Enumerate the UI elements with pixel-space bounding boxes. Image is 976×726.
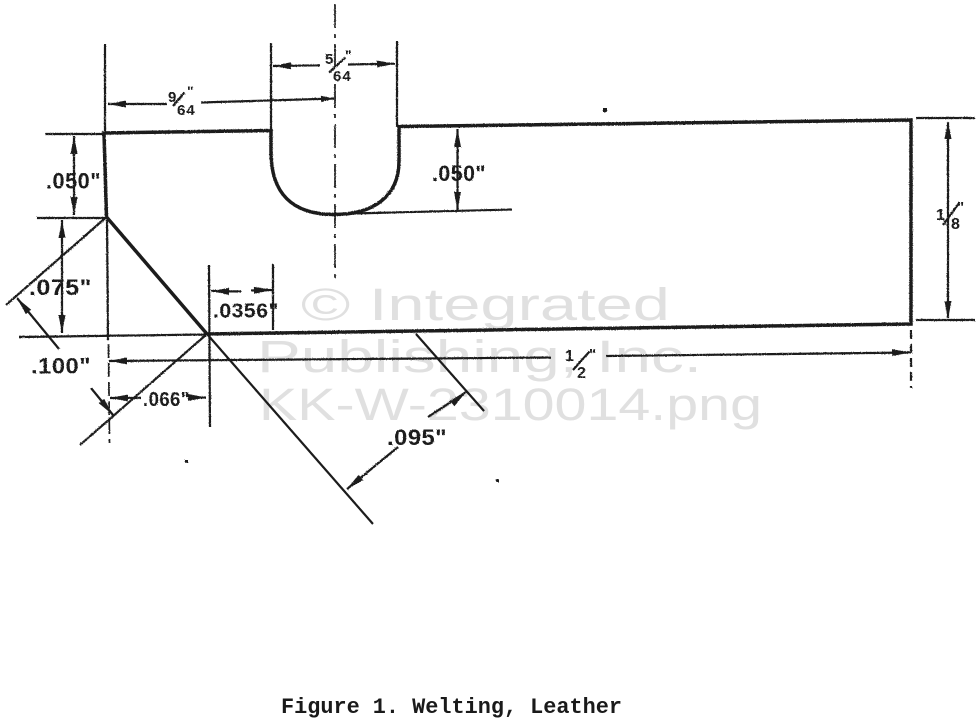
svg-text:.095": .095" — [387, 425, 447, 450]
ext line below bottom-right corner dashed — [910, 330, 912, 388]
ext line groove left wall up — [270, 43, 272, 131]
svg-text:.066": .066" — [143, 389, 190, 411]
dim line .100 upper segment — [17, 298, 59, 349]
svg-text:.0356": .0356" — [213, 301, 279, 323]
parallel line D2 for .095 dim — [416, 334, 484, 411]
svg-text:.075": .075" — [29, 275, 92, 300]
ext line above top-left corner — [104, 44, 106, 133]
dim line .0356 right segment — [251, 289, 272, 292]
svg-text:1: 1 — [936, 207, 945, 224]
ext line groove right wall up — [396, 41, 398, 127]
dim line 5/64 left segment — [273, 64, 320, 67]
svg-text:KK-W-2310014.png: KK-W-2310014.png — [259, 379, 762, 430]
dim line 1/2 left segment — [109, 358, 551, 362]
svg-text:": " — [345, 47, 352, 63]
centerline of groove — [334, 4, 336, 280]
dim line .100 lower segment — [91, 388, 113, 415]
svg-text:64: 64 — [333, 68, 352, 85]
svg-text:64: 64 — [177, 102, 196, 119]
ext line at part bottom corner vertical — [209, 265, 210, 427]
dim line 9/64 left segment — [108, 103, 167, 105]
dim line 1/8 — [947, 122, 949, 318]
speck dot — [603, 108, 607, 112]
ext line perpendicular at bevel top (P1) — [6, 217, 107, 305]
speck dot — [185, 460, 188, 463]
ext line at bevel top corner — [37, 217, 106, 219]
ext line bottom-left horizontal — [19, 335, 207, 338]
svg-text:2: 2 — [577, 365, 586, 382]
speck dot — [496, 479, 499, 482]
ext line from groove bottom right — [353, 210, 512, 214]
svg-text:Figure 1. Welting, Leather: Figure 1. Welting, Leather — [281, 695, 622, 720]
ext line below groove left wall — [272, 264, 274, 330]
dim line .0356 left segment — [211, 290, 241, 293]
dim line 9/64 right segment — [201, 99, 334, 103]
welting profile outline — [104, 120, 911, 334]
ext line below bevel corner upper — [107, 220, 108, 340]
dim line .075 — [61, 220, 63, 333]
bevel extension line D1 — [207, 334, 373, 524]
svg-text:.050": .050" — [46, 169, 101, 194]
svg-text:8: 8 — [951, 216, 960, 233]
ext line bottom-right horizontal — [916, 319, 975, 321]
svg-text:": " — [589, 346, 597, 363]
dim line .066 left segment — [110, 397, 141, 399]
dim line .050 left — [73, 136, 75, 215]
svg-text:.100": .100" — [31, 354, 91, 379]
ext line top-right horizontal — [916, 117, 975, 119]
dim line 5/64 right segment — [348, 63, 395, 66]
svg-text:1: 1 — [565, 348, 574, 365]
svg-text:© Integrated: © Integrated — [301, 279, 670, 330]
ext line perpendicular at bevel bottom (P2) — [80, 334, 207, 445]
svg-text:": " — [957, 199, 965, 216]
svg-text:.050": .050" — [432, 161, 486, 186]
dim line .095 lower segment — [347, 447, 398, 489]
ext line below bevel corner lower dashed — [109, 344, 110, 443]
svg-text:": " — [187, 83, 194, 99]
dim line .066 right segment — [191, 396, 206, 398]
dim line 1/2 right segment — [606, 353, 910, 357]
ext line top-left horizontal — [45, 133, 104, 135]
svg-text:5: 5 — [325, 51, 334, 68]
dim line .095 upper segment — [428, 392, 466, 417]
dim line .050 right — [456, 129, 458, 210]
